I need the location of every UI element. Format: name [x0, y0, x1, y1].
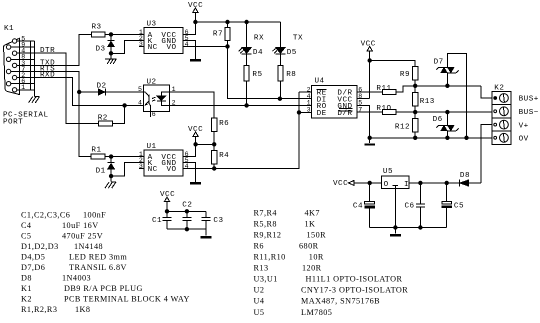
resistor R12 150R [395, 112, 418, 138]
wire U4 VCC pin8 [357, 98, 370, 100]
U2 pin numbers 5 4 1 2 6 [138, 86, 176, 118]
node R5 on RO line [245, 104, 248, 107]
wire U4 RE-DE tie [299, 92, 312, 112]
resistor R9 150R [370, 61, 418, 81]
wire U3 VO pin4 to R7 node [183, 45, 228, 47]
wire RXD from K1 pin2 to U2 emitter node [35, 78, 125, 106]
svg-text:1N4148: 1N4148 [74, 242, 103, 251]
K1 unused-pin bus wires [30, 41, 34, 96]
svg-text:R13: R13 [420, 98, 435, 106]
node U5 ground on rail [394, 226, 397, 229]
node C5 top [445, 181, 448, 184]
signal label RXD [40, 72, 55, 80]
svg-text:10R: 10R [309, 253, 324, 262]
capacitor C3 100nF [201, 211, 223, 229]
svg-text:VO: VO [166, 166, 176, 174]
svg-text:R8: R8 [286, 71, 296, 79]
svg-text:I: I [404, 181, 409, 189]
svg-text:R13: R13 [254, 264, 269, 273]
resistor R8 1K [278, 54, 297, 81]
decoupling bottom rail [167, 228, 206, 230]
wire U1 GND pin5 to ground [183, 163, 196, 182]
svg-text:R5: R5 [252, 71, 262, 79]
ground bar at U1 pin5 [190, 182, 201, 184]
ground bar under supply rail [390, 228, 401, 237]
node RXD/R2/U2.4 junction [123, 104, 126, 107]
wire U1 VCC pin6 riser [183, 144, 196, 156]
wire U2 LED cathode pin2 to U4 RO [170, 104, 312, 106]
wire R3 to U3 pin1 node [105, 33, 144, 35]
svg-text:U3,U1: U3,U1 [254, 275, 278, 284]
svg-text:R12: R12 [395, 123, 410, 131]
ground bar under decoupling caps [201, 229, 212, 238]
diode D2 1N4148 [79, 83, 143, 96]
VCC rail wire to RX TX branches [195, 21, 280, 23]
wire U5 out to D8 [409, 182, 459, 184]
U1 pin numbers 1 2 3 6 5 4 [139, 151, 189, 170]
U3 pin numbers 1 2 3 6 5 4 [139, 29, 189, 48]
wire U5 output row [394, 189, 396, 228]
svg-text:NC: NC [148, 44, 158, 52]
svg-text:D4: D4 [253, 49, 263, 57]
resistor R1 1K8 [91, 147, 105, 160]
wire U2 LED anode pin1 to R6 [170, 92, 215, 118]
label PC-SERIAL PORT [3, 112, 49, 127]
transil D6 6.8V across BUS- and 0V [433, 112, 459, 138]
node D6 on BUS- rail [446, 110, 449, 113]
svg-text:470uF 25V: 470uF 25V [62, 231, 103, 240]
wire TXD from K1 pin3 up to R3 [35, 34, 92, 65]
resistor R2 1K8 [98, 114, 113, 126]
parts list right column [254, 208, 409, 316]
wire R6 bottom to node [213, 132, 215, 145]
svg-text:C5: C5 [454, 202, 464, 210]
svg-text:D1,D2,D3: D1,D2,D3 [21, 242, 59, 251]
svg-text:K2: K2 [21, 294, 32, 303]
wire U4 GND pin5 to OV rail [357, 105, 370, 137]
diode D1 1N4148 [96, 157, 115, 182]
wire BUS+ rail into K2 [481, 86, 492, 98]
capacitor C5 470uF [442, 183, 464, 228]
signal label TXD [40, 59, 55, 67]
svg-text:R11: R11 [376, 85, 391, 93]
capacitor ground rail [370, 227, 447, 229]
node C1 top rail [165, 210, 168, 213]
diode D8 1N4003 [459, 172, 481, 186]
svg-text:D1: D1 [96, 168, 106, 176]
node D1 anode junction [109, 174, 112, 177]
svg-text:C1,C2,C3,C6: C1,C2,C3,C6 [21, 210, 70, 219]
svg-text:R9: R9 [400, 71, 410, 79]
svg-text:C1: C1 [152, 217, 162, 225]
svg-text:U4: U4 [254, 297, 265, 306]
capacitor C2 100nF [182, 202, 192, 230]
svg-text:K1: K1 [21, 284, 32, 293]
LED D5 RED transmit indicator [273, 22, 297, 57]
node D3 anode junction [109, 52, 112, 55]
node R9 on BUS+ rail [414, 84, 417, 87]
wire DTR from K1 pin4 down to R2 [35, 53, 99, 124]
K1 pin stubs with pin numbers 5 9 4 8 3 7 2 6 1 [11, 35, 35, 91]
svg-text:TRANSIL 6.8V: TRANSIL 6.8V [69, 263, 127, 272]
wire U3 VCC pin6 to VCC rail [183, 22, 195, 34]
node VCC rail at U3 [194, 20, 197, 23]
svg-text:BUS+: BUS+ [519, 96, 539, 104]
svg-text:R9,R12: R9,R12 [254, 230, 282, 239]
U4 pin numbers 2 4 1 3 6 8 5 7 [307, 86, 363, 113]
svg-text:H11L1 OPTO-ISOLATOR: H11L1 OPTO-ISOLATOR [306, 275, 403, 284]
node RTS line at D2 anode [78, 90, 81, 93]
wire RTS from K1 pin7 down to D2 and R1 [35, 72, 91, 157]
resistor R5 1K [244, 54, 263, 81]
svg-text:C5: C5 [21, 231, 31, 240]
svg-text:D6: D6 [433, 116, 443, 124]
wire U2 collector pin5 [105, 91, 143, 93]
node RE/DE at DE pin [297, 111, 300, 114]
svg-text:PCB TERMINAL BLOCK 4 WAY: PCB TERMINAL BLOCK 4 WAY [64, 294, 190, 303]
label BUS+ [519, 96, 539, 104]
svg-text:4K7: 4K7 [305, 208, 320, 217]
svg-text:C4: C4 [21, 221, 31, 230]
svg-text:RX: RX [254, 34, 264, 42]
node C2 top [185, 210, 188, 213]
svg-text:U4: U4 [315, 78, 325, 86]
node R6/R4 junction [213, 143, 216, 146]
svg-text:R5,R8: R5,R8 [254, 219, 277, 228]
resistor R11 10R [357, 85, 396, 94]
svg-text:C2: C2 [182, 202, 192, 210]
wire R1 to U1 pin1 node [105, 156, 144, 158]
svg-text:RXD: RXD [40, 72, 55, 80]
svg-text:C4: C4 [353, 202, 363, 210]
node D7 on BUS+ rail [446, 84, 449, 87]
wire R11 to BUS+ rail [396, 86, 481, 92]
node VCC rail at R7 [226, 20, 229, 23]
resistor R3 1K8 [91, 24, 105, 37]
connector K1 DB9 PC-serial plug [4, 25, 20, 94]
power flag VCC at U4 [361, 40, 376, 98]
svg-text:LM7805: LM7805 [301, 308, 332, 317]
svg-text:1N4003: 1N4003 [62, 273, 91, 282]
node U4 gnd on OV rail [368, 136, 371, 139]
svg-text:100nF: 100nF [83, 210, 106, 219]
wire R2 right up to U2 pin4 node [112, 105, 124, 123]
label BUS- [519, 109, 539, 117]
capacitor C4 10uF [353, 183, 375, 228]
wire U3 GND pin5 to ground [183, 40, 195, 58]
signal label DTR [40, 47, 55, 55]
svg-text:NC: NC [148, 166, 158, 174]
transil D7 6.8V across BUS+ and 0V [434, 54, 467, 138]
decoupling top rail [167, 210, 206, 212]
wire U2 emitter pin4 node [125, 104, 144, 106]
label OV [519, 136, 529, 144]
node R12 on OV rail [414, 136, 417, 139]
svg-text:C3: C3 [213, 217, 223, 225]
svg-text:V+: V+ [519, 122, 529, 130]
node VCC/R6/R4 tie left [194, 143, 197, 146]
svg-text:VCC: VCC [333, 180, 348, 188]
svg-text:R1,R2,R3: R1,R2,R3 [21, 305, 57, 314]
node R13 on BUS- rail [414, 110, 417, 113]
signal label RTS [40, 65, 55, 73]
wire D1 anode to U1 pin2 K [111, 163, 144, 177]
wire R5 bottom to U4 RO line [246, 81, 248, 106]
capacitor C6 100nF [405, 183, 425, 228]
svg-text:DE: DE [317, 110, 327, 118]
svg-text:R7: R7 [213, 30, 223, 38]
node R1/D1/U1.A junction [109, 155, 112, 158]
svg-text:R11,R10: R11,R10 [254, 253, 286, 262]
svg-text:K1: K1 [4, 25, 14, 33]
svg-text:U2: U2 [254, 286, 265, 295]
svg-text:10uF 16V: 10uF 16V [62, 221, 99, 230]
ground at K1 shield [29, 97, 40, 103]
node R7 bottom / U3 VO [226, 45, 229, 48]
svg-text:O: O [384, 181, 389, 189]
svg-text:DB9 R/A PCB PLUG: DB9 R/A PCB PLUG [64, 284, 143, 293]
label V+ [519, 122, 529, 130]
label TX [293, 34, 303, 42]
ground bar at U3 pin5 [190, 59, 201, 61]
svg-text:R6: R6 [254, 241, 264, 250]
svg-text:D8: D8 [460, 172, 470, 180]
opto-isolator U3 H11L1 [144, 21, 183, 54]
svg-text:R1O: R1O [376, 105, 391, 113]
wire R9 bottom to BUS+ rail [414, 80, 416, 86]
node R3/D3/U3.A junction [109, 33, 112, 36]
terminal block K2 4 way [492, 85, 511, 145]
node C6 top [419, 181, 422, 184]
svg-text:D7: D7 [434, 59, 444, 67]
resistor R4 4K7 [212, 144, 230, 164]
wire U3 VO down and right to U4 DI [228, 46, 312, 98]
label RX [254, 34, 264, 42]
svg-text:TX: TX [293, 34, 303, 42]
wire R8 bottom to DI line [279, 81, 281, 99]
svg-text:1K: 1K [305, 219, 316, 228]
resistor R10 10R [357, 105, 396, 115]
svg-text:R3: R3 [92, 24, 102, 32]
regulator U5 LM7805 [381, 168, 409, 189]
svg-text:D4,D5: D4,D5 [21, 252, 45, 261]
node D6 on OV rail [446, 136, 449, 139]
transceiver U4 MAX487 [312, 78, 357, 118]
svg-text:MAX487, SN75176B: MAX487, SN75176B [301, 297, 380, 306]
svg-text:D8: D8 [21, 273, 32, 282]
svg-text:VCC: VCC [361, 40, 376, 48]
parts list left column [21, 210, 190, 313]
resistor R7 4K7 [213, 22, 230, 46]
ground bar below OV rail [364, 138, 375, 146]
LED D4 RED receive indicator [239, 22, 263, 57]
U2 base pin6 stub [150, 112, 152, 117]
svg-text:D5: D5 [287, 49, 297, 57]
svg-text:R7,R4: R7,R4 [254, 208, 277, 217]
svg-text:BUS−: BUS− [519, 109, 539, 117]
capacitor C1 100nF [152, 211, 172, 229]
svg-text:CNY17-3 OPTO-ISOLATOR: CNY17-3 OPTO-ISOLATOR [301, 286, 408, 295]
node C6 on rail [419, 226, 422, 229]
wire R4 bottom to U1 VO line [213, 164, 215, 169]
svg-text:D7,D6: D7,D6 [21, 263, 45, 272]
svg-text:R1: R1 [91, 147, 101, 155]
wire OV rail to K2 [370, 137, 492, 139]
resistor R13 120R [413, 86, 435, 112]
svg-text:PORT: PORT [3, 119, 23, 127]
wire U1 VO pin4 to U4 RE/DE tie [183, 92, 299, 169]
svg-text:680R: 680R [299, 241, 319, 250]
power flag VCC top [188, 2, 203, 22]
node R4 on VO line [213, 167, 216, 170]
node VCC rail at RX branch [245, 20, 248, 23]
power flag VCC at decoupling caps [160, 191, 175, 211]
node R8 on DI line [278, 97, 281, 100]
wire D3 anode to U3 pin2 K [111, 40, 144, 53]
ground under D1 [105, 182, 116, 188]
svg-text:150R: 150R [307, 230, 327, 239]
svg-text:D3: D3 [96, 45, 106, 53]
svg-text:U5: U5 [383, 168, 393, 176]
svg-text:R4: R4 [219, 152, 229, 160]
node C4 top [368, 181, 371, 184]
node VCC/R9 branch [368, 59, 371, 62]
node C2 bottom [185, 228, 188, 231]
resistor R6 680R [212, 118, 230, 132]
svg-text:1: 1 [21, 84, 25, 91]
svg-text:LED RED 3mm: LED RED 3mm [69, 252, 127, 261]
svg-text:6: 6 [152, 111, 156, 118]
node D7 return on OV rail [465, 136, 468, 139]
wire BUS- rail to K2 [396, 111, 492, 113]
svg-text:1K8: 1K8 [75, 305, 90, 314]
opto-isolator U2 CNY17-3 [144, 78, 170, 111]
power flag VCC at U1 [188, 126, 203, 144]
power tag VCC from regulator [333, 180, 381, 188]
svg-text:U5: U5 [254, 308, 265, 317]
wire V+ from K2 down to D8 [481, 125, 492, 183]
ground under D3 [105, 59, 116, 64]
svg-text:C6: C6 [405, 203, 415, 211]
svg-text:VO: VO [166, 44, 176, 52]
opto-isolator U1 H11L1 [144, 143, 183, 176]
svg-text:OV: OV [519, 136, 529, 144]
svg-text:120R: 120R [302, 264, 322, 273]
diode D3 1N4148 [96, 34, 115, 59]
wire VCC node to R6/R4 node [196, 143, 215, 145]
svg-text:R6: R6 [219, 120, 229, 128]
svg-text:DTR: DTR [40, 47, 55, 55]
